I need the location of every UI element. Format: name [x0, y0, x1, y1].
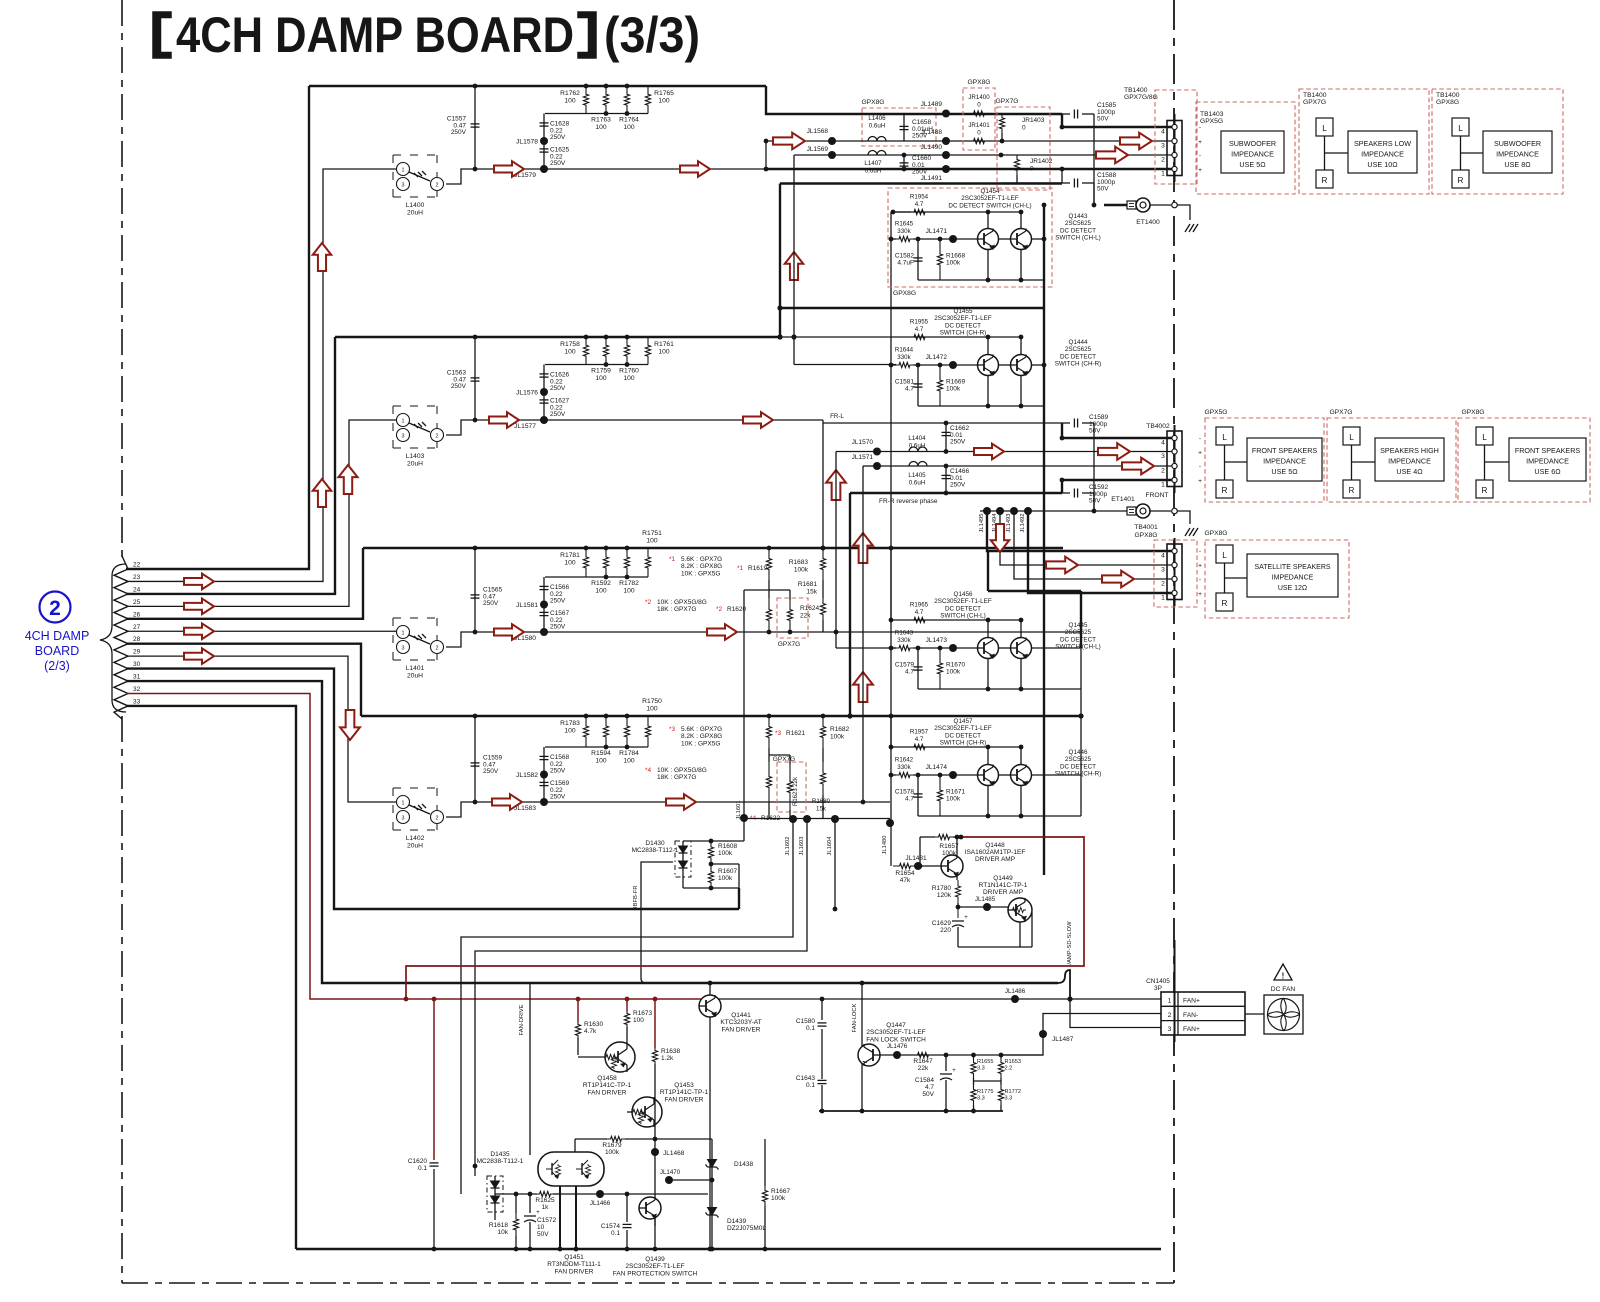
svg-text:2: 2: [436, 182, 439, 188]
svg-text:R1783: R1783: [560, 720, 580, 727]
svg-text:4CH DAMP: 4CH DAMP: [25, 629, 90, 643]
svg-text:20uH: 20uH: [407, 843, 423, 850]
svg-text:250V: 250V: [550, 624, 566, 631]
svg-text:5.6K : GPX7G: 5.6K : GPX7G: [681, 726, 722, 733]
svg-text:JL1474: JL1474: [926, 764, 948, 771]
box SATELLITE SPEAKERS USE 12: [1247, 554, 1338, 597]
wire FR-L to pin4: [941, 422, 1062, 424]
svg-text:R: R: [1349, 486, 1355, 495]
resistor R1607: [708, 866, 713, 888]
arrow row3 a: [494, 624, 524, 640]
svg-text:JL1570: JL1570: [852, 439, 874, 446]
svg-text:*1: *1: [669, 556, 676, 563]
svg-text:JL1480: JL1480: [882, 835, 888, 854]
svg-text:TB1400: TB1400: [1303, 92, 1327, 99]
wire y169 line: [766, 168, 1172, 170]
svg-text:0.1: 0.1: [806, 1025, 815, 1032]
svg-text:L: L: [1222, 551, 1227, 560]
resistor ladder R1783, R1594, R1784, R1750: [583, 716, 588, 747]
resistor R1667: [764, 1139, 766, 1186]
wire relay out: [446, 802, 544, 817]
transistor Q1448: [941, 855, 963, 877]
wire row1 riser to JL1568 line: [765, 141, 767, 169]
resistor R1775: [971, 1085, 976, 1105]
box GPX8G (JR1400/01): [963, 88, 995, 150]
arrow row2 a: [489, 412, 519, 428]
svg-text:L1406: L1406: [868, 115, 886, 122]
svg-text:JL1471: JL1471: [926, 228, 948, 235]
svg-text:4.7: 4.7: [915, 609, 924, 616]
svg-text:1.2k: 1.2k: [661, 1055, 674, 1062]
wire rail: [918, 815, 1081, 817]
arrow row3 b: [707, 624, 737, 640]
svg-text:FRONT SPEAKERS: FRONT SPEAKERS: [1515, 446, 1581, 455]
wire collector bus x1044: [1043, 205, 1045, 875]
wire pin33 to bottom rail: [126, 706, 296, 1249]
svg-text:22k: 22k: [800, 613, 811, 620]
svg-text:4.7: 4.7: [925, 1084, 934, 1091]
svg-text:R1775: R1775: [977, 1089, 993, 1095]
svg-text:4.7: 4.7: [915, 326, 924, 333]
svg-text:GPX7G: GPX7G: [1303, 99, 1326, 106]
svg-text:3P: 3P: [1154, 985, 1162, 992]
box GPX8G satellite: [1205, 540, 1349, 618]
svg-text:L1401: L1401: [406, 665, 425, 672]
resistor ladder R1781, R1592, R1782, R1751: [583, 548, 588, 577]
arrow up x836: [826, 470, 846, 500]
capacitor C1580: [821, 999, 823, 1020]
svg-text:JL1470: JL1470: [660, 1169, 681, 1176]
svg-text:+: +: [1198, 563, 1202, 570]
capacitor C1572: [529, 1194, 531, 1213]
svg-text:R: R: [1458, 176, 1464, 185]
svg-text:2SC3052EF-T1-LEF: 2SC3052EF-T1-LEF: [866, 1029, 925, 1036]
svg-text:2SC3052EF-T1-LEF: 2SC3052EF-T1-LEF: [934, 598, 992, 605]
wire FAN-LOCK: [861, 983, 863, 1111]
wire sat pin3: [1000, 511, 1172, 565]
svg-text:250V: 250V: [483, 768, 499, 775]
svg-text:4.7: 4.7: [905, 386, 914, 393]
resistor R1642: [896, 772, 913, 777]
svg-text:*2: *2: [716, 606, 723, 613]
wires row4 fb: [768, 748, 770, 762]
svg-text:-: -: [1199, 549, 1201, 556]
wire transistor conns: [987, 620, 989, 638]
svg-text:KTC3203Y-AT: KTC3203Y-AT: [720, 1019, 761, 1026]
svg-text:+: +: [1198, 139, 1202, 146]
resistor JR1400: [966, 111, 992, 116]
svg-text:3: 3: [402, 815, 405, 821]
resistor R1624 22k (red box): [777, 598, 808, 638]
svg-text:R1763: R1763: [591, 117, 611, 124]
node JL1474: [949, 771, 957, 779]
wire collector: [893, 211, 1021, 213]
wire bus x1081: [1080, 648, 1082, 816]
transistor Q1456 pair: [978, 638, 999, 659]
svg-text:100: 100: [595, 758, 606, 765]
capacitor C1557: [474, 86, 476, 169]
wire FR-R: [850, 492, 1062, 494]
capacitor C1559: [474, 716, 476, 802]
svg-text:4.7: 4.7: [905, 669, 914, 676]
page divider right (dash-dot): [1173, 0, 1175, 1283]
svg-text:L1402: L1402: [406, 835, 425, 842]
svg-text:18K : GPX7G: 18K : GPX7G: [657, 606, 696, 613]
svg-text:JL1489: JL1489: [921, 101, 943, 108]
svg-text:100k: 100k: [946, 796, 961, 803]
wire pin22 to bus1: [126, 86, 309, 569]
svg-text:C1643: C1643: [796, 1075, 816, 1082]
svg-text:50V: 50V: [1089, 428, 1101, 435]
node JL1493: [1010, 507, 1018, 515]
label circled 2: [40, 592, 71, 623]
svg-text:R1673: R1673: [633, 1010, 653, 1017]
svg-text:IMPEDANCE: IMPEDANCE: [1388, 456, 1431, 465]
svg-text:Q1439: Q1439: [645, 1256, 665, 1263]
svg-text:R1653: R1653: [1005, 1059, 1021, 1065]
node JL1485: [983, 903, 991, 911]
svg-text:3.3: 3.3: [977, 1066, 985, 1072]
arrow TB1400 pin3: [1120, 133, 1152, 150]
box R (sat): [1216, 593, 1233, 611]
svg-text:100: 100: [646, 706, 657, 713]
svg-text:2SC3052EF-T1-LEF: 2SC3052EF-T1-LEF: [934, 315, 992, 322]
svg-text:*1: *1: [737, 565, 744, 572]
svg-text:JL1476: JL1476: [887, 1043, 908, 1050]
svg-text:330k: 330k: [897, 637, 911, 644]
wire JL1604 drop: [834, 819, 836, 909]
svg-text:!: !: [1282, 972, 1285, 981]
svg-text:R1681: R1681: [798, 581, 818, 588]
svg-text:Q1456: Q1456: [954, 591, 973, 598]
capacitor C1565: [474, 548, 476, 632]
node JL1601: [740, 814, 748, 822]
svg-text:ET1401: ET1401: [1111, 496, 1135, 503]
resistor R1681: [820, 598, 825, 620]
svg-text:GPX8G: GPX8G: [967, 79, 990, 86]
svg-text:10: 10: [537, 1224, 545, 1231]
svg-text:GPX8G: GPX8G: [893, 290, 916, 297]
svg-text:R: R: [1482, 486, 1488, 495]
svg-text:100: 100: [564, 349, 575, 356]
title text 4CH DAMP BOARD (3/3): [153, 12, 171, 58]
wire bus y983 to CN: [1058, 970, 1070, 999]
svg-text:C1574: C1574: [601, 1223, 621, 1230]
svg-text:DC DETECT: DC DETECT: [945, 732, 981, 739]
zener D1438: [711, 1139, 713, 1152]
resistor R1957: [911, 744, 928, 749]
box L (GPX8G): [1452, 118, 1469, 136]
box FRONT SPEAKERS USE 5: [1247, 438, 1322, 481]
wire collector: [780, 336, 1021, 338]
svg-text:R1682: R1682: [830, 726, 850, 733]
svg-text:2: 2: [436, 815, 439, 821]
inductor L1407: [868, 151, 886, 155]
svg-text:-: -: [1199, 577, 1201, 584]
svg-text:29: 29: [133, 649, 141, 656]
resistor R1647: [913, 1052, 933, 1057]
resistor R1625: [537, 1191, 553, 1196]
svg-text:100: 100: [595, 124, 606, 131]
svg-text:SWITCH (CH-L): SWITCH (CH-L): [1055, 235, 1100, 242]
wire block2 input from x794: [794, 364, 896, 366]
svg-text:100: 100: [595, 588, 606, 595]
node JL1568: [828, 137, 836, 145]
svg-text:ET1400: ET1400: [1136, 219, 1160, 226]
svg-text:JL1603: JL1603: [799, 836, 805, 855]
svg-text:R1657: R1657: [939, 843, 959, 850]
svg-text:SUBWOOFER: SUBWOOFER: [1494, 139, 1541, 148]
svg-text:RT1N141C-TP-1: RT1N141C-TP-1: [979, 882, 1028, 889]
svg-text:TB1400: TB1400: [1124, 87, 1148, 94]
svg-text:FAN+: FAN+: [1183, 1026, 1200, 1033]
svg-text:50V: 50V: [1089, 498, 1101, 505]
svg-text:GPX8G: GPX8G: [1436, 99, 1459, 106]
svg-text:SPEAKERS HIGH: SPEAKERS HIGH: [1380, 446, 1439, 455]
svg-text:DC DETECT: DC DETECT: [1060, 353, 1096, 360]
node JL1471: [949, 235, 957, 243]
wire sat pin1: [1028, 511, 1172, 593]
svg-text:JL1569: JL1569: [807, 146, 829, 153]
svg-text:DC FAN: DC FAN: [1271, 986, 1296, 993]
capacitor C1574: [626, 1194, 628, 1222]
arrow up riser2: [338, 465, 357, 494]
svg-text:R1630: R1630: [584, 1021, 604, 1028]
arrow up x794: [785, 252, 803, 280]
svg-text:L1404: L1404: [908, 435, 926, 442]
capacitor C1620: [430, 1162, 439, 1164]
svg-text:250V: 250V: [550, 768, 566, 775]
svg-text:0.6uH: 0.6uH: [909, 480, 926, 487]
svg-text:R1761: R1761: [654, 341, 674, 348]
svg-text:R: R: [1322, 176, 1328, 185]
wire bus y909 right end: [738, 888, 740, 909]
svg-text:250V: 250V: [451, 129, 467, 136]
svg-text:TB4002: TB4002: [1146, 423, 1170, 430]
svg-text:C1578: C1578: [895, 789, 915, 796]
wire Q1441 conns: [709, 983, 711, 995]
relay inductor L1400: [393, 154, 437, 156]
svg-text:4: 4: [1161, 553, 1165, 560]
svg-text:250V: 250V: [550, 134, 566, 141]
wire y155 line: [794, 154, 1172, 156]
arrow up riser1 a: [313, 243, 331, 271]
svg-text:SWITCH (CH-L): SWITCH (CH-L): [940, 613, 985, 620]
svg-text:R1607: R1607: [718, 868, 738, 875]
arrow TB4002 pin3 a: [974, 444, 1004, 460]
wire pin32 maroon: [126, 694, 699, 1000]
wire maroon C1620 drop: [433, 999, 435, 1160]
wire base Q1448: [918, 865, 941, 867]
wire relay out: [446, 420, 544, 435]
svg-text:50V: 50V: [537, 1231, 549, 1238]
wire rail: [918, 688, 1081, 690]
svg-text:0: 0: [1030, 166, 1034, 173]
wire Q1447 conns: [880, 1054, 1043, 1056]
capacitor C1643: [821, 1029, 823, 1079]
svg-text:*2: *2: [645, 599, 652, 606]
svg-text:*3: *3: [669, 726, 676, 733]
bus row2: [335, 336, 780, 338]
svg-text:JL1491: JL1491: [921, 175, 943, 182]
svg-text:JL1468: JL1468: [663, 1150, 685, 1157]
svg-text:FAN DRIVER: FAN DRIVER: [721, 1026, 760, 1033]
svg-text:250V: 250V: [550, 385, 566, 392]
svg-text:C1581: C1581: [895, 379, 915, 386]
svg-text:2SC3052EF-T1-LEF: 2SC3052EF-T1-LEF: [625, 1263, 684, 1270]
zener D1439: [711, 1175, 713, 1200]
wire row line: [544, 801, 890, 803]
svg-text:JL1487: JL1487: [1052, 1036, 1074, 1043]
box TB1400 GPX8G: [1432, 89, 1563, 194]
wire pin23 to row1: [126, 169, 396, 581]
arrow sat pin3: [1046, 557, 1078, 574]
svg-text:15k: 15k: [807, 589, 818, 596]
node JL1569: [828, 151, 836, 159]
svg-text:1: 1: [402, 167, 405, 173]
svg-text:22k: 22k: [918, 1065, 929, 1072]
svg-text:JL1481: JL1481: [905, 855, 927, 862]
box GPX7G: [997, 107, 1050, 190]
svg-text:100k: 100k: [942, 850, 957, 857]
svg-text:R1759: R1759: [591, 368, 611, 375]
wire Q1449 bottom: [1019, 922, 1021, 947]
wires fan lock rails: [973, 1078, 975, 1085]
svg-text:3.3: 3.3: [1005, 1096, 1013, 1102]
wire bottom rail: [296, 1248, 1161, 1250]
box R (GPX7G mid): [1343, 480, 1360, 498]
svg-text:4: 4: [1161, 129, 1165, 136]
box DC FAN: [1264, 995, 1303, 1034]
resistor R1671: [937, 775, 942, 816]
wire transistor conns: [987, 337, 989, 355]
box SUBWOOFER USE 8: [1483, 131, 1552, 173]
arrow pin29: [184, 648, 214, 664]
svg-text:ISA1602AM1TP-1EF: ISA1602AM1TP-1EF: [965, 849, 1026, 856]
svg-text:FAN DRIVER: FAN DRIVER: [664, 1096, 703, 1103]
svg-text:L: L: [1222, 433, 1227, 442]
capacitor C1588: [1061, 169, 1063, 183]
box GPX8G (L1406/C1658): [862, 108, 936, 146]
svg-text:RT1P141C-TP-1: RT1P141C-TP-1: [583, 1082, 632, 1089]
svg-text:R1954: R1954: [910, 194, 929, 201]
svg-text:47k: 47k: [900, 877, 911, 884]
resistor R1657: [920, 836, 935, 838]
svg-text:3: 3: [402, 433, 405, 439]
svg-text:4: 4: [1161, 440, 1165, 447]
svg-text:IMPEDANCE: IMPEDANCE: [1231, 149, 1274, 158]
resistor R1683: [820, 548, 825, 580]
arrow up x863 b: [853, 672, 873, 702]
capacitor C1629: [957, 907, 959, 918]
svg-text:JL1472: JL1472: [926, 354, 948, 361]
svg-text:FRONT: FRONT: [1145, 492, 1168, 499]
arrow up x863 a: [853, 533, 873, 563]
transistor Q1447: [858, 1044, 880, 1066]
wire Q1448 emitter: [956, 877, 958, 880]
brace left of connector: [100, 564, 126, 712]
svg-text:GPX5G: GPX5G: [1200, 118, 1223, 125]
svg-text:TB4001: TB4001: [1134, 524, 1158, 531]
svg-text:15k: 15k: [816, 806, 827, 813]
svg-text:30: 30: [133, 661, 141, 668]
svg-text:0.6uH: 0.6uH: [909, 443, 926, 450]
svg-text:0: 0: [977, 102, 981, 109]
svg-text:10K : GPX5G/8G: 10K : GPX5G/8G: [657, 767, 707, 774]
svg-text:JL1568: JL1568: [807, 128, 829, 135]
wire row line: [544, 419, 823, 421]
svg-text:JL1571: JL1571: [852, 454, 874, 461]
node JL1480: [886, 819, 894, 827]
box L (GPX7G): [1316, 118, 1333, 136]
svg-text:R1750: R1750: [642, 698, 662, 705]
wire FAN-DRIVE: [529, 983, 531, 1155]
svg-text:100: 100: [564, 728, 575, 735]
capacitor C1592: [1062, 492, 1070, 494]
resistor R1655: [973, 1055, 975, 1058]
svg-text:D1438: D1438: [734, 1161, 754, 1168]
connector TB1400: [1174, 114, 1176, 182]
inductor L1405: [909, 462, 927, 467]
svg-text:JL1578: JL1578: [516, 139, 538, 146]
svg-text:330k: 330k: [897, 354, 911, 361]
wire LR (GPX5G): [1224, 445, 1226, 480]
svg-text:250V: 250V: [950, 439, 966, 446]
arrow pin27: [184, 623, 214, 639]
svg-text:100: 100: [564, 560, 575, 567]
svg-text:DC DETECT: DC DETECT: [1060, 636, 1096, 643]
arrow row2 b: [743, 412, 773, 428]
arrow down sat: [991, 524, 1009, 552]
svg-text:2.2: 2.2: [1005, 1066, 1013, 1072]
svg-text:R1772: R1772: [1005, 1089, 1021, 1095]
wire LR (GPX8G mid): [1484, 445, 1486, 480]
svg-text:MC2838-T112-1: MC2838-T112-1: [477, 1158, 524, 1165]
svg-text:RT3NDDM-T111-1: RT3NDDM-T111-1: [547, 1261, 601, 1268]
wire rail: [918, 279, 1044, 281]
svg-text:JL1466: JL1466: [590, 1200, 611, 1207]
svg-text:100k: 100k: [794, 567, 809, 574]
svg-text:R1671: R1671: [946, 789, 966, 796]
svg-text:+: +: [964, 915, 968, 921]
resistor R1673: [626, 999, 628, 1011]
svg-text:FAN PROTECTION SWITCH: FAN PROTECTION SWITCH: [613, 1270, 698, 1277]
svg-text:4.7k: 4.7k: [584, 1028, 597, 1035]
svg-text:1: 1: [1168, 998, 1172, 1005]
svg-text:2: 2: [1161, 468, 1165, 475]
bus row1: [309, 85, 766, 87]
svg-text:R1751: R1751: [642, 530, 662, 537]
arrow row1 a: [494, 161, 524, 177]
arrow TB1400 pin2: [1096, 147, 1128, 164]
node dots rows: [474, 85, 476, 87]
resistor R1772: [998, 1085, 1003, 1105]
svg-text:31: 31: [133, 674, 141, 681]
box L (GPX7G mid): [1343, 427, 1360, 445]
svg-text:R1668: R1668: [946, 253, 966, 260]
node JL1476: [893, 1051, 901, 1059]
svg-text:+: +: [1198, 591, 1202, 598]
svg-text:Q1457: Q1457: [954, 718, 973, 725]
svg-text:20uH: 20uH: [407, 461, 423, 468]
svg-text:2: 2: [1161, 157, 1165, 164]
wire input: [891, 364, 896, 366]
wire FAN+ line: [699, 998, 1161, 1000]
svg-text:-: -: [1199, 153, 1201, 160]
wire collector: [891, 746, 1021, 748]
wire x863 vertical: [862, 466, 864, 802]
svg-text:GPX7G/8G: GPX7G/8G: [1124, 94, 1158, 101]
